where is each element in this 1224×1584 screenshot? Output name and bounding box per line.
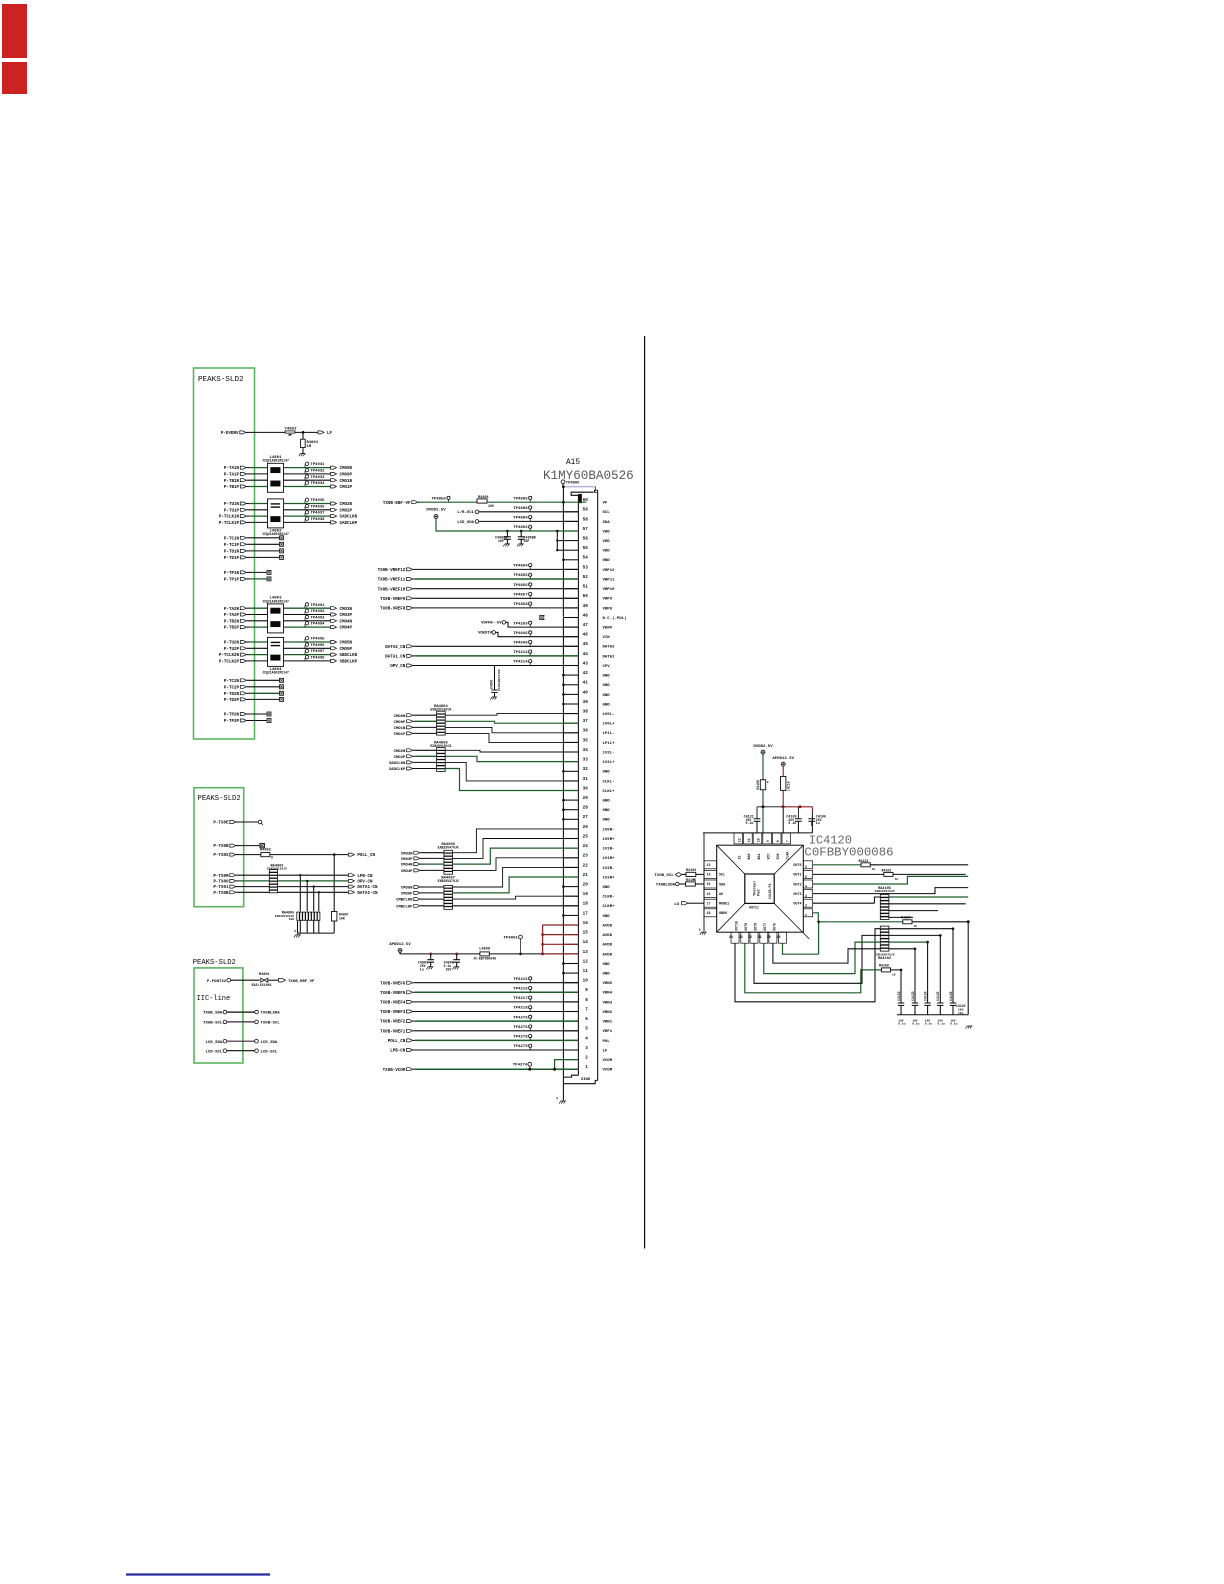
- resistor network RA4102 label: [875, 954, 895, 961]
- svg-text:P-TA1N: P-TA1N: [224, 467, 240, 471]
- svg-text:15: 15: [583, 931, 589, 936]
- svg-text:R4108: R4108: [879, 964, 889, 968]
- svg-text:P-TU2P: P-TU2P: [224, 648, 240, 652]
- svg-text:OUT4: OUT4: [793, 903, 801, 907]
- svg-text:P-TX0S: P-TX0S: [213, 854, 229, 858]
- svg-text:SADCLKP: SADCLKP: [389, 768, 406, 772]
- CMO0/1 inputs: [394, 714, 437, 737]
- svg-text:X2: X2: [738, 856, 742, 860]
- svg-text:43: 43: [583, 661, 589, 666]
- out arrow POLL_CN: [348, 853, 375, 858]
- svg-text:JCQ21A801M2147: JCQ21A801M2147: [262, 532, 289, 536]
- svg-text:Pad: Pad: [757, 890, 762, 896]
- label IC4120: [809, 833, 852, 847]
- signals P-TC2 squares: [224, 678, 284, 703]
- svg-text:TP4259: TP4259: [513, 622, 528, 626]
- svg-text:1V2R+: 1V2R+: [603, 876, 616, 880]
- svg-text:45: 45: [583, 642, 589, 647]
- svg-text:14: 14: [583, 940, 589, 945]
- signal TX0B-VCOM: [383, 1068, 415, 1073]
- svg-text:SADCLKP: SADCLKP: [340, 522, 358, 526]
- R4108 out: [891, 969, 901, 971]
- resistor network RA4803: [267, 865, 287, 893]
- svg-text:OUT0: OUT0: [793, 864, 801, 868]
- svg-text:39: 39: [583, 700, 589, 705]
- resistor R4102: [882, 868, 899, 880]
- signal TX0B-EBF-VF: [383, 501, 420, 506]
- svg-text:16: 16: [583, 921, 589, 926]
- svg-text:L4110: L4110: [787, 781, 791, 791]
- svg-text:TP4097: TP4097: [311, 650, 326, 654]
- svg-text:CLKL-: CLKL-: [603, 780, 615, 784]
- svg-text:EXB28V470JX: EXB28V470JX: [875, 890, 895, 893]
- svg-text:37: 37: [583, 719, 589, 724]
- svg-text:DATA2-CN: DATA2-CN: [357, 892, 378, 896]
- svg-text:DATA1_CN: DATA1_CN: [385, 656, 406, 660]
- connector pins: [562, 498, 626, 1073]
- svg-text:TP4091: TP4091: [311, 604, 326, 608]
- svg-text:TX0B-VREF11: TX0B-VREF11: [378, 579, 406, 583]
- net tie line: [565, 487, 596, 491]
- svg-text:JCQ21A801M2147: JCQ21A801M2147: [262, 599, 289, 603]
- svg-text:27: 27: [583, 815, 589, 820]
- svg-text:PEAKS-SLD2: PEAKS-SLD2: [198, 795, 241, 803]
- svg-text:EXB28V470JX: EXB28V470JX: [438, 845, 459, 849]
- svg-text:R4105: R4105: [686, 879, 696, 883]
- svg-text:CMO1N: CMO1N: [340, 480, 353, 484]
- svg-text:TP4856: TP4856: [513, 584, 528, 588]
- svg-text:PEAKS-SLD2: PEAKS-SLD2: [193, 959, 236, 967]
- svg-text:P-TP1N: P-TP1N: [224, 572, 240, 576]
- svg-text:3: 3: [805, 894, 807, 898]
- svg-text:POLL_CN: POLL_CN: [388, 1040, 406, 1044]
- svg-text:TP4094: TP4094: [311, 623, 326, 627]
- svg-text:11: 11: [747, 838, 751, 842]
- svg-text:MODE1: MODE1: [719, 903, 729, 907]
- svg-text:57: 57: [583, 527, 589, 532]
- svg-text:CMO3P: CMO3P: [340, 614, 353, 618]
- gnd bus wire: [562, 487, 564, 1101]
- svg-text:36: 36: [583, 729, 589, 734]
- svg-text:52: 52: [583, 575, 589, 580]
- svg-text:10: 10: [757, 838, 761, 842]
- svg-text:SDA: SDA: [719, 883, 726, 887]
- bus ground: [556, 1097, 566, 1104]
- capacitor C4109: [786, 807, 801, 833]
- svg-text:LCD-SCL: LCD-SCL: [261, 1050, 278, 1054]
- svg-text:CMO4N: CMO4N: [340, 620, 353, 624]
- svg-text:DVDD2.5V: DVDD2.5V: [426, 508, 446, 512]
- svg-text:23: 23: [739, 935, 743, 939]
- svg-text:P-TCLK2P: P-TCLK2P: [219, 661, 240, 665]
- label C0FBBY000086: [804, 845, 893, 859]
- svg-text:TP4274: TP4274: [513, 1064, 528, 1068]
- ic left pins: [704, 861, 729, 917]
- junction: [302, 431, 305, 434]
- svg-text:12: 12: [583, 959, 589, 964]
- ic bottom pins: [729, 921, 786, 943]
- svg-text:SBDCLKN: SBDCLKN: [340, 654, 358, 658]
- svg-text:10: 10: [583, 979, 589, 984]
- wire pin57: [436, 519, 578, 532]
- svg-text:EXB28V470JX: EXB28V470JX: [438, 879, 459, 883]
- svg-text:L4808: L4808: [479, 948, 490, 952]
- power row wire: [757, 807, 812, 833]
- svg-text:10K: 10K: [289, 918, 295, 921]
- svg-text:46: 46: [583, 633, 589, 638]
- testpoint TP4846: [513, 631, 532, 637]
- red pin wires: [541, 925, 578, 954]
- svg-text:14: 14: [707, 873, 711, 877]
- svg-text:TP4849: TP4849: [513, 642, 528, 646]
- svg-text:10: 10: [872, 868, 876, 871]
- ic left bus: [703, 833, 705, 932]
- svg-text:TP4031: TP4031: [311, 463, 326, 467]
- svg-text:P-TD2P: P-TD2P: [224, 699, 240, 703]
- svg-text:GND: GND: [603, 703, 611, 707]
- svg-text:8: 8: [776, 840, 780, 842]
- svg-text:TX0B-EBF-VF: TX0B-EBF-VF: [383, 502, 411, 506]
- signal P-FONT32: [207, 978, 260, 983]
- svg-text:VRP12: VRP12: [603, 569, 616, 573]
- svg-text:GND: GND: [603, 963, 611, 967]
- svg-text:9: 9: [766, 840, 770, 842]
- outputs CMO5 group: [284, 637, 358, 665]
- svg-text:TX0B-VREF12: TX0B-VREF12: [378, 569, 406, 573]
- svg-text:P-TP2N: P-TP2N: [224, 714, 240, 718]
- svg-text:P-TCLK2N: P-TCLK2N: [219, 654, 240, 658]
- svg-text:CMO3N: CMO3N: [340, 608, 353, 612]
- cap bank ground: [966, 1015, 973, 1029]
- svg-text:29: 29: [583, 796, 589, 801]
- wire OUT1 b: [893, 873, 966, 875]
- svg-text:LO: LO: [674, 903, 679, 907]
- svg-text:13: 13: [707, 863, 711, 867]
- wire VCOM: [415, 1068, 579, 1070]
- svg-text:15: 15: [707, 882, 711, 886]
- label A15: [566, 459, 580, 467]
- svg-text:P-TA2P: P-TA2P: [224, 614, 240, 618]
- svg-text:TX0BLSDA: TX0BLSDA: [261, 1012, 281, 1016]
- svg-text:RA4102: RA4102: [878, 957, 891, 961]
- svg-text:P-TC1P: P-TC1P: [224, 544, 240, 548]
- svg-text:C4122: C4122: [897, 991, 901, 1001]
- svg-text:18P: 18P: [524, 539, 530, 543]
- wire OUT1: [813, 873, 885, 875]
- transformer L4801: [262, 456, 289, 492]
- svg-text:CMO3N: CMO3N: [401, 852, 413, 856]
- power APDD12.5V ic: [772, 757, 794, 766]
- svg-text:TP4278: TP4278: [513, 1036, 528, 1040]
- svg-text:49: 49: [583, 604, 589, 609]
- svg-text:4: 4: [585, 1036, 588, 1041]
- svg-text:19: 19: [583, 892, 589, 897]
- svg-text:TP4036: TP4036: [311, 505, 326, 509]
- wire R4804 gnd: [302, 448, 304, 453]
- svg-text:LPB-CN: LPB-CN: [390, 1050, 406, 1054]
- resistor network RA4805: [275, 912, 320, 922]
- svg-text:DVDD2.5V: DVDD2.5V: [753, 745, 773, 749]
- svg-text:CMO1P: CMO1P: [394, 733, 406, 737]
- resistor R4801: [477, 496, 494, 508]
- VREF upper rows: [378, 564, 579, 612]
- wires CN pulldowns: [278, 874, 378, 912]
- junction c2: [520, 530, 523, 533]
- svg-text:P-TC2N: P-TC2N: [224, 680, 240, 684]
- svg-text:BA1: BA1: [757, 854, 761, 860]
- svg-text:22: 22: [748, 935, 752, 939]
- wire P-DVDRV: [248, 431, 318, 433]
- svg-text:34: 34: [583, 748, 589, 753]
- svg-text:1: 1: [585, 1065, 588, 1070]
- svg-text:VOEDIV: VOEDIV: [478, 632, 492, 636]
- svg-text:VRP11: VRP11: [603, 578, 616, 582]
- svg-text:GND: GND: [603, 771, 611, 775]
- svg-text:10K: 10K: [339, 917, 345, 921]
- resistor R4802: [260, 849, 273, 860]
- svg-text:VDD: VDD: [603, 540, 611, 544]
- svg-text:16: 16: [707, 892, 711, 896]
- transformer L4803: [262, 597, 289, 633]
- inductor L4110: [781, 776, 791, 791]
- svg-text:24: 24: [729, 935, 733, 939]
- svg-text:11: 11: [583, 969, 589, 974]
- signal TX0B_SCL ic: [654, 872, 686, 878]
- svg-text:TX0B-VREF2: TX0B-VREF2: [380, 1021, 406, 1025]
- cap bank bus: [897, 1014, 968, 1016]
- svg-text:P-TX0B: P-TX0B: [213, 845, 229, 849]
- svg-text:5: 5: [805, 875, 807, 879]
- svg-text:GND0: GND0: [719, 912, 727, 916]
- svg-text:33: 33: [583, 758, 589, 763]
- wire OUT2: [813, 876, 969, 884]
- outputs CMO0 group: [284, 462, 353, 490]
- svg-text:SCL: SCL: [719, 874, 725, 878]
- svg-text:P-TCLK1N: P-TCLK1N: [219, 516, 240, 520]
- svg-text:TX0B-VREF9: TX0B-VREF9: [380, 598, 406, 602]
- svg-text:OUT11: OUT11: [749, 906, 759, 910]
- IIC lines: [203, 1010, 280, 1054]
- wire POLL: [270, 853, 349, 856]
- svg-text:TX0B-SCL: TX0B-SCL: [261, 1022, 281, 1026]
- signals P-TA2N..P-TB2P: [224, 607, 268, 631]
- signal P-DVDRV: [221, 431, 248, 436]
- wire pin60 b: [487, 501, 586, 504]
- resistor R4123: [859, 859, 876, 871]
- thermal pad: [745, 874, 774, 910]
- svg-text:2: 2: [805, 904, 807, 908]
- svg-text:APDD12.5V: APDD12.5V: [772, 757, 794, 761]
- svg-text:P-TB2N: P-TB2N: [224, 620, 240, 624]
- svg-text:CMO2N: CMO2N: [394, 750, 406, 754]
- svg-text:CMO5P: CMO5P: [340, 648, 353, 652]
- svg-text:TP4279: TP4279: [513, 1045, 528, 1049]
- svg-text:LCD_SDA: LCD_SDA: [457, 521, 474, 525]
- svg-text:TP4032: TP4032: [311, 470, 326, 474]
- svg-text:IIC-line: IIC-line: [197, 995, 231, 1003]
- testpoint TP4856: [431, 496, 450, 502]
- svg-text:TP4857: TP4857: [513, 594, 528, 598]
- label PEAKS-SLD2 #1: [198, 376, 244, 384]
- resistor network RA4102: [880, 926, 889, 951]
- svg-text:CPV: CPV: [603, 665, 611, 669]
- junction a1: [429, 953, 432, 956]
- svg-text:23: 23: [583, 854, 589, 859]
- label L4802: [262, 529, 289, 536]
- wire apdd2: [782, 790, 784, 833]
- svg-text:40: 40: [583, 690, 589, 695]
- capacitor C4808A: [495, 531, 511, 547]
- junction v: [556, 530, 559, 533]
- cap vert right: [967, 922, 969, 1015]
- svg-text:N.C.(-POL): N.C.(-POL): [603, 616, 627, 621]
- svg-text:1M: 1M: [307, 445, 312, 449]
- wire AVDD: [400, 952, 543, 954]
- svg-text:1: 1: [805, 913, 807, 917]
- svg-text:C4120-P4: C4120-P4: [768, 884, 772, 899]
- svg-text:DATA2: DATA2: [603, 646, 616, 650]
- svg-text:1V1R+: 1V1R+: [603, 857, 616, 861]
- svg-text:SDA: SDA: [603, 521, 611, 525]
- svg-text:P-TD1N: P-TD1N: [224, 551, 240, 555]
- module frame PEAKS-SLD2 #2: [194, 788, 244, 907]
- resistor network RA4804 label: [430, 705, 451, 711]
- label PEAKS-SLD2 #3: [193, 959, 236, 967]
- outputs CMO3 group: [284, 603, 353, 631]
- svg-text:AVDD: AVDD: [603, 944, 613, 948]
- svg-text:R4804: R4804: [307, 441, 319, 445]
- svg-text:VOFFB--5V: VOFFB--5V: [481, 622, 502, 626]
- svg-text:OUT10: OUT10: [734, 921, 738, 931]
- svg-text:TP4858: TP4858: [513, 603, 528, 607]
- svg-text:LF: LF: [327, 432, 333, 436]
- wire pin60 a: [420, 501, 477, 503]
- svg-text:P-TA1P: P-TA1P: [224, 474, 240, 478]
- svg-text:P-TP2P: P-TP2P: [224, 720, 240, 724]
- divider line: [644, 336, 646, 1249]
- inductor L4808: [473, 948, 496, 961]
- svg-text:OUT7: OUT7: [763, 923, 767, 931]
- svg-text:24: 24: [583, 844, 589, 849]
- svg-text:10: 10: [895, 878, 899, 881]
- svg-text:TX0B-VREF6: TX0B-VREF6: [380, 982, 406, 986]
- ic top pins: [734, 833, 791, 860]
- bottom pin staircases: [735, 929, 881, 1002]
- svg-text:0.1u: 0.1u: [925, 1023, 932, 1026]
- CMO5 inputs: [396, 886, 444, 910]
- svg-text:CMO3P: CMO3P: [401, 858, 413, 862]
- pin48 stub trim: [544, 617, 563, 619]
- svg-text:SADCLKN: SADCLKN: [389, 762, 406, 766]
- svg-text:TP4217: TP4217: [513, 997, 528, 1001]
- svg-text:R4109: R4109: [756, 780, 760, 790]
- junction a2: [455, 953, 458, 956]
- svg-text:CMBCLKP: CMBCLKP: [396, 905, 413, 909]
- svg-text:0: 0: [294, 930, 296, 933]
- signal VOEDIV: [478, 631, 578, 637]
- svg-text:TP4808: TP4808: [513, 507, 528, 511]
- svg-text:TP4855: TP4855: [513, 574, 528, 578]
- svg-text:VF: VF: [603, 502, 608, 506]
- svg-text:TX0B-VREF1: TX0B-VREF1: [380, 1030, 406, 1034]
- svg-text:R4801: R4801: [259, 973, 270, 977]
- svg-text:R4123: R4123: [859, 859, 869, 863]
- svg-text:TP4215: TP4215: [513, 978, 528, 982]
- module frame PEAKS-SLD2 #3: [194, 968, 243, 1063]
- svg-text:TX0B-VREF10: TX0B-VREF10: [378, 588, 406, 592]
- svg-text:CMO0P: CMO0P: [340, 474, 353, 478]
- svg-text:ECJ0EB0J470K: ECJ0EB0J470K: [498, 669, 501, 691]
- svg-text:VCOM: VCOM: [603, 1059, 613, 1063]
- svg-text:0.1u: 0.1u: [788, 821, 796, 825]
- wire dvdd: [762, 754, 764, 780]
- svg-text:25V: 25V: [446, 967, 452, 971]
- capacitor C4106: [808, 815, 826, 826]
- svg-text:7: 7: [585, 1007, 588, 1012]
- svg-text:P-TU1N: P-TU1N: [224, 503, 240, 507]
- wire to R4804: [302, 432, 304, 439]
- svg-text:1V1R-: 1V1R-: [603, 848, 615, 852]
- svg-text:GND: GND: [603, 809, 611, 813]
- resistor network RA4105 label: [875, 887, 895, 893]
- power DVDD2.5V ic: [753, 745, 773, 754]
- svg-text:VRP10: VRP10: [603, 588, 616, 592]
- svg-text:P-TX0M: P-TX0M: [213, 875, 229, 879]
- resistor R4107: [901, 916, 917, 929]
- svg-text:CMO0N: CMO0N: [340, 467, 353, 471]
- svg-text:55: 55: [583, 546, 589, 551]
- svg-text:LF: LF: [603, 1049, 608, 1053]
- label K1MY60BA0526: [543, 469, 634, 483]
- svg-text:2: 2: [585, 1056, 588, 1061]
- svg-text:47: 47: [583, 623, 589, 628]
- svg-text:TP4037: TP4037: [311, 512, 326, 516]
- svg-text:TX0B_SDA: TX0B_SDA: [203, 1012, 223, 1016]
- svg-text:VCOM: VCOM: [603, 1069, 613, 1073]
- svg-text:TP4038: TP4038: [311, 518, 326, 522]
- junction d1: [762, 805, 765, 808]
- svg-text:OUT1: OUT1: [793, 874, 801, 878]
- signals P-TC1 squares: [224, 536, 284, 561]
- svg-text:38: 38: [583, 710, 589, 715]
- svg-text:18: 18: [707, 911, 711, 915]
- svg-text:4: 4: [805, 884, 807, 888]
- svg-text:5: 5: [585, 1027, 588, 1032]
- svg-text:R4102: R4102: [882, 868, 892, 872]
- svg-text:BA0: BA0: [747, 854, 751, 860]
- svg-text:CLKR+: CLKR+: [603, 905, 616, 909]
- svg-text:PEAKS-SLD2: PEAKS-SLD2: [198, 376, 244, 384]
- testpoint TP4808: [513, 506, 532, 512]
- svg-text:13: 13: [583, 950, 589, 955]
- svg-text:JC-EB70S0948: JC-EB70S0948: [473, 957, 496, 961]
- RA4105 outs: [889, 897, 968, 917]
- svg-text:P-TX0B: P-TX0B: [213, 892, 229, 896]
- testpoint TP4801: [503, 935, 522, 955]
- svg-text:32: 32: [583, 767, 589, 772]
- svg-text:POLL_CN: POLL_CN: [357, 854, 375, 858]
- svg-text:0.1u: 0.1u: [898, 1023, 905, 1026]
- svg-text:18: 18: [583, 902, 589, 907]
- resistor R4105: [686, 879, 705, 886]
- svg-text:GND: GND: [603, 675, 611, 679]
- svg-text:1V2L+: 1V2L+: [603, 761, 616, 765]
- svg-text:GND: GND: [603, 886, 611, 890]
- resistor R4807: [332, 855, 349, 934]
- svg-text:JCQ21A801M2147: JCQ21A801M2147: [262, 459, 289, 463]
- svg-text:P-FONT32: P-FONT32: [207, 980, 227, 984]
- DATA rows: [385, 640, 578, 669]
